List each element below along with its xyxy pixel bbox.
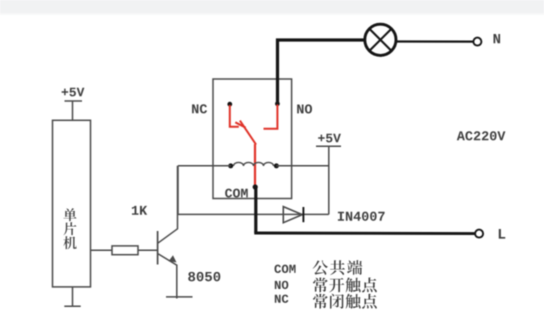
label N: [494, 34, 501, 43]
wire MCU to ground: [72, 287, 74, 307]
transistor Q1 base bar: [157, 231, 159, 265]
terminal N circle: [473, 38, 481, 46]
label 8050: [188, 272, 195, 282]
diode D1 triangle: [283, 207, 302, 223]
wire +5V down to diode line: [328, 146, 330, 214]
wire coil right to +5V node: [276, 165, 328, 167]
thick wire top horizontal: [276, 38, 364, 41]
wire diode anode line: [178, 213, 329, 215]
wire +5V to MCU box: [72, 101, 74, 121]
wire resistor to transistor base: [138, 249, 158, 251]
thick wire COM down: [254, 187, 257, 233]
armature tick: [235, 122, 245, 127]
legend NC row: [275, 295, 281, 303]
coil terminal dot right: [274, 163, 279, 168]
label 1K: [132, 206, 139, 215]
legend COM row: [274, 265, 281, 273]
MCU label ji: [63, 236, 76, 249]
NO contact red hook: [264, 105, 278, 129]
transistor emitter lead: [158, 254, 177, 265]
relay K1 box: [213, 79, 292, 199]
emitter arrow: [169, 256, 176, 262]
label COM (relay): [225, 189, 232, 198]
top gray strip: [0, 0, 544, 13]
transistor collector lead: [158, 166, 178, 243]
diode cathode bar: [302, 207, 304, 222]
COM junction dot: [253, 184, 258, 189]
MCU label dan: [63, 208, 76, 221]
label NO: [297, 105, 303, 114]
resistor R1 1K: [112, 246, 138, 255]
MCU U1 box: [53, 120, 91, 287]
label IN4007: [338, 212, 344, 221]
relay armature: [240, 121, 256, 145]
lamp X: [370, 29, 392, 51]
+5V supply label (relay): [318, 135, 325, 142]
ground (MCU): [64, 305, 80, 307]
red wire armature to COM: [254, 144, 256, 187]
thick wire NO contact up: [276, 39, 279, 104]
relay coil L1: [234, 162, 274, 166]
wire collector node down: [177, 166, 179, 215]
wire MCU output to resistor: [91, 249, 113, 251]
wire lamp to N terminal: [396, 40, 473, 42]
wire coil left to collector node: [178, 165, 231, 167]
lamp circle: [365, 24, 396, 55]
wire emitter to ground: [176, 265, 178, 299]
NC contact dot: [227, 102, 232, 107]
label L: [499, 229, 505, 239]
MCU label pian: [63, 222, 76, 235]
legend NO row: [275, 281, 281, 289]
terminal L circle: [475, 230, 483, 238]
+5V power bar (relay): [316, 145, 341, 147]
+5V power bar (MCU): [65, 100, 83, 102]
+5V supply label (MCU): [62, 89, 69, 96]
label NC: [192, 104, 198, 113]
coil terminal dot left: [228, 163, 233, 168]
NC contact red hook: [230, 105, 239, 127]
label AC220V: [457, 131, 465, 140]
NO contact dot: [275, 101, 280, 106]
thick wire L horizontal: [254, 232, 475, 236]
ground (emitter): [166, 296, 193, 298]
